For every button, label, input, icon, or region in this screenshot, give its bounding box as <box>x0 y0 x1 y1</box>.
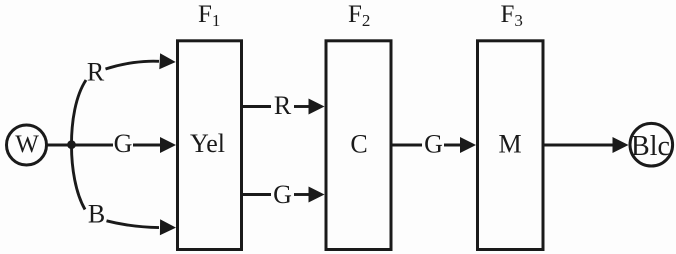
wire F1 to R label (R channel) <box>243 105 271 108</box>
arrowhead R into F2 <box>309 99 325 115</box>
wire G label to F1 <box>133 144 161 147</box>
svg-text:Blc: Blc <box>631 131 670 162</box>
svg-text:B: B <box>88 200 105 229</box>
svg-text:G: G <box>424 130 443 159</box>
svg-text:F3: F3 <box>501 1 523 30</box>
wire G label to F2 <box>294 193 310 196</box>
box F3 (M) <box>478 41 544 250</box>
wire F1 to G label (G channel) <box>243 193 271 196</box>
svg-text:Yel: Yel <box>190 129 225 158</box>
arrowhead B into F1 <box>160 219 176 235</box>
box F1 (Yel) <box>178 41 242 250</box>
junction dot <box>67 140 76 149</box>
wire junction up toward R label <box>72 80 87 144</box>
wire G label to F3 <box>444 144 462 147</box>
node W (source circle) <box>7 125 47 165</box>
box F2 (C) <box>326 41 391 250</box>
wire W to junction to G label <box>47 144 114 147</box>
wire junction down toward B label <box>72 146 86 210</box>
arrowhead R into F1 <box>159 53 175 69</box>
svg-text:F1: F1 <box>198 1 220 30</box>
wire R label to F2 <box>294 105 310 108</box>
svg-text:G: G <box>273 180 292 209</box>
svg-text:W: W <box>15 131 39 158</box>
svg-text:R: R <box>87 58 105 87</box>
arrowhead G into F3 <box>460 137 476 153</box>
wire F2 to G label <box>393 144 423 147</box>
arrowhead G into F1 <box>160 137 176 153</box>
svg-text:F2: F2 <box>348 1 370 30</box>
svg-text:G: G <box>114 129 133 158</box>
arrowhead G into F2 <box>309 187 325 203</box>
svg-text:M: M <box>498 130 521 159</box>
arrowhead into Blc <box>613 137 629 153</box>
svg-text:R: R <box>274 91 292 120</box>
wire B label to F1 (curved) <box>107 221 160 228</box>
svg-text:C: C <box>350 130 367 159</box>
wire F3 to Blc <box>545 144 614 147</box>
wire R label to F1 (curved) <box>106 61 160 69</box>
node Blc (output circle) <box>630 123 673 166</box>
